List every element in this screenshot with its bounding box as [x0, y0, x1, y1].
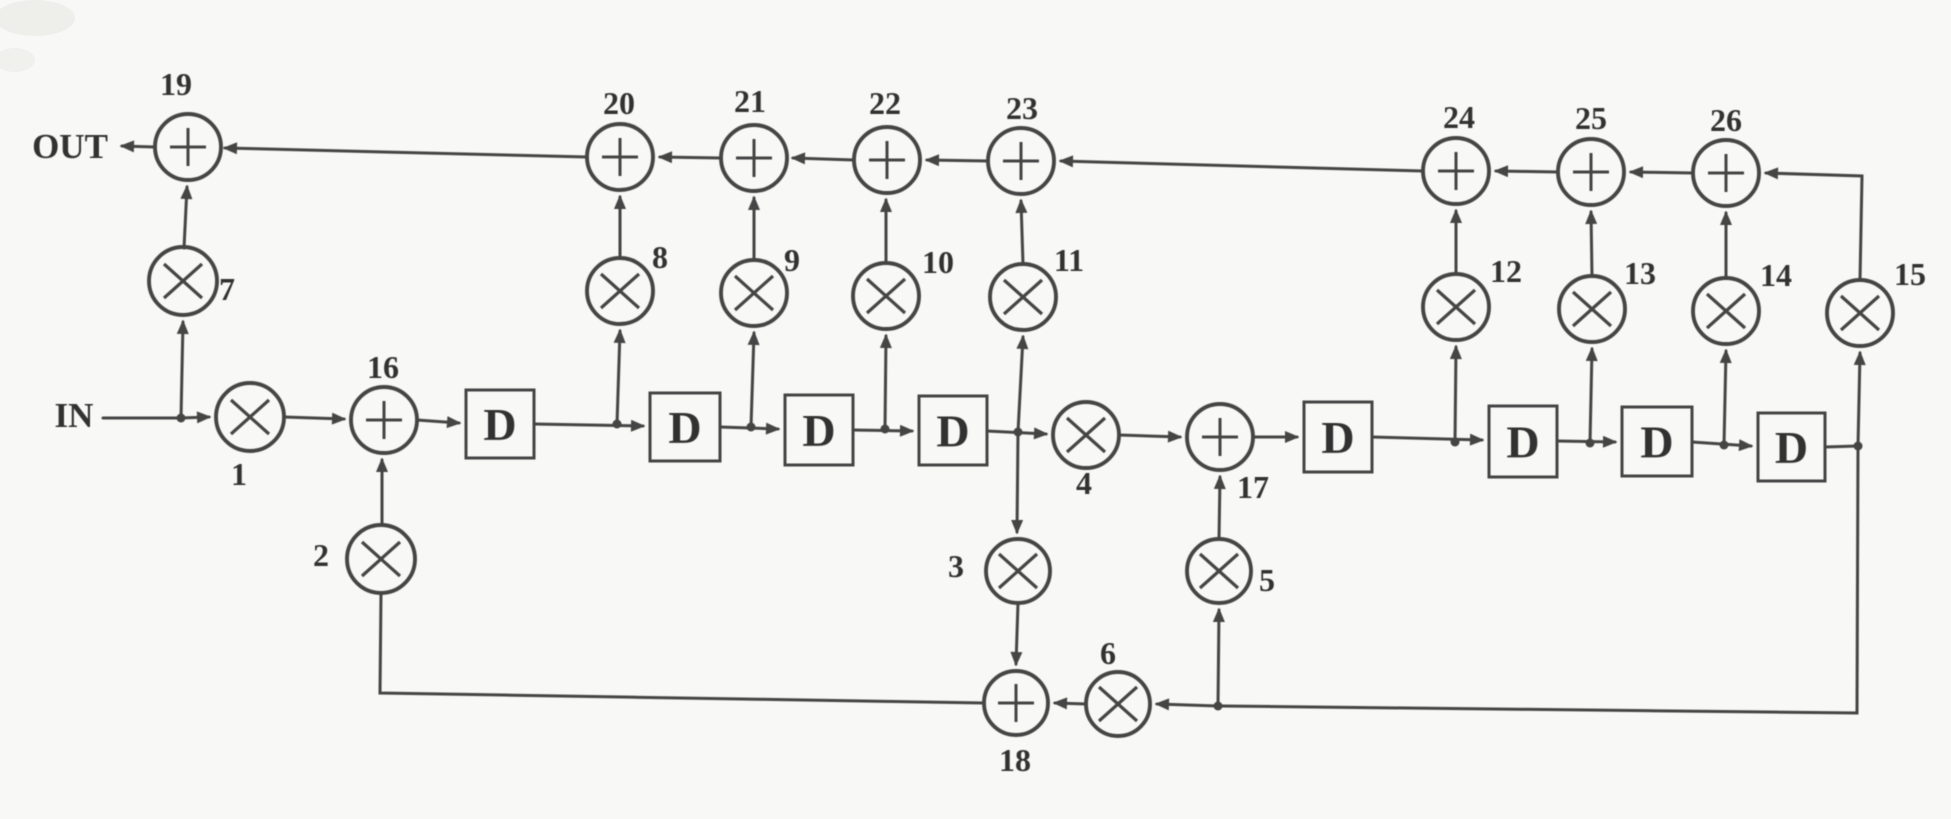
- svg-text:7: 7: [219, 271, 235, 307]
- svg-text:4: 4: [1076, 465, 1092, 501]
- svg-text:16: 16: [367, 349, 399, 385]
- svg-text:11: 11: [1054, 242, 1084, 278]
- svg-text:D: D: [1640, 417, 1673, 468]
- svg-text:24: 24: [1443, 99, 1475, 135]
- svg-text:15: 15: [1894, 256, 1926, 292]
- svg-text:13: 13: [1624, 255, 1656, 291]
- svg-text:5: 5: [1259, 562, 1275, 598]
- svg-text:19: 19: [160, 66, 192, 102]
- svg-text:22: 22: [869, 85, 901, 121]
- svg-text:25: 25: [1575, 100, 1607, 136]
- svg-text:23: 23: [1006, 90, 1038, 126]
- svg-text:D: D: [668, 402, 701, 453]
- svg-text:D: D: [483, 399, 516, 450]
- svg-text:2: 2: [313, 537, 329, 573]
- svg-text:D: D: [1775, 422, 1808, 473]
- svg-text:26: 26: [1710, 102, 1742, 138]
- svg-text:OUT: OUT: [32, 127, 108, 166]
- svg-text:D: D: [936, 406, 969, 457]
- svg-text:D: D: [802, 405, 835, 456]
- svg-text:18: 18: [999, 742, 1031, 778]
- svg-text:12: 12: [1490, 253, 1522, 289]
- svg-text:1: 1: [231, 456, 247, 492]
- svg-text:8: 8: [652, 239, 668, 275]
- svg-text:21: 21: [734, 83, 766, 119]
- svg-text:10: 10: [922, 244, 954, 280]
- svg-text:IN: IN: [55, 396, 94, 435]
- svg-text:D: D: [1506, 417, 1539, 468]
- svg-text:6: 6: [1100, 635, 1116, 671]
- svg-text:3: 3: [948, 548, 964, 584]
- svg-text:D: D: [1321, 412, 1354, 463]
- svg-text:9: 9: [784, 242, 800, 278]
- svg-text:17: 17: [1237, 469, 1269, 505]
- svg-text:20: 20: [603, 85, 635, 121]
- svg-text:14: 14: [1760, 257, 1792, 293]
